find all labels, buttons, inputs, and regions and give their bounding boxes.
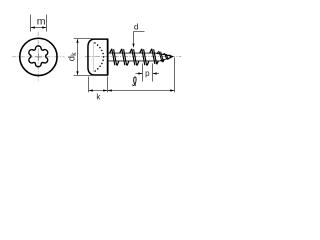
svg-text:d: d <box>134 22 139 32</box>
svg-text:p: p <box>145 69 150 78</box>
svg-text:k: k <box>96 92 101 101</box>
svg-text:dk: dk <box>67 52 79 61</box>
svg-text:m: m <box>37 15 46 27</box>
